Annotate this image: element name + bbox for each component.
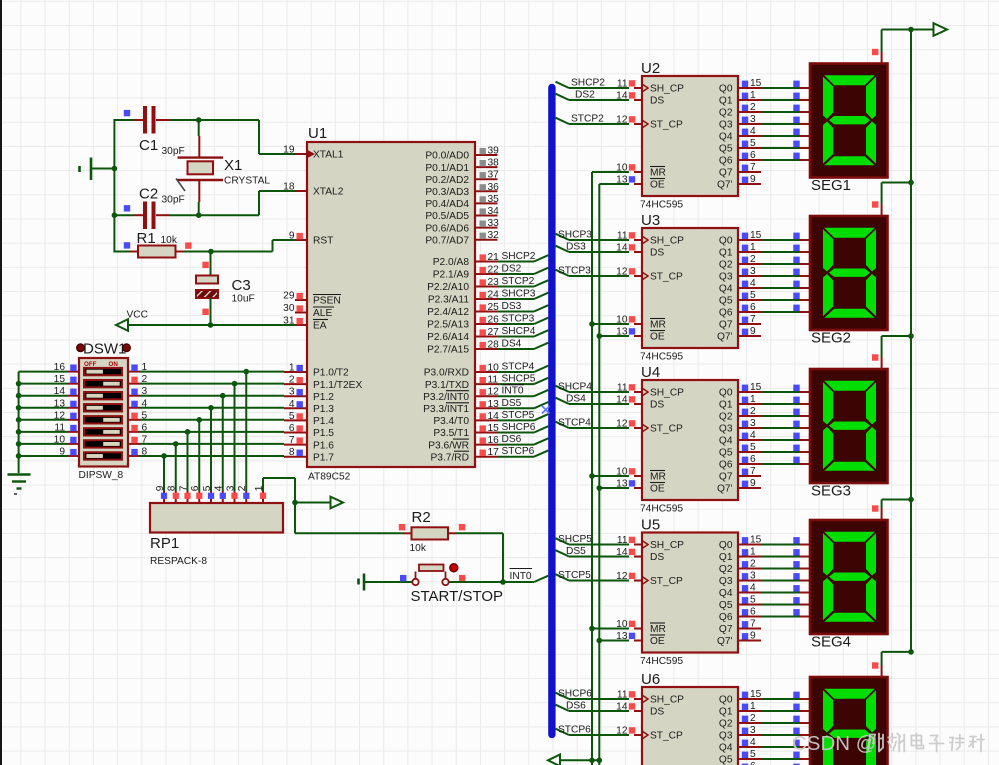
svg-text:27: 27	[488, 327, 500, 338]
svg-text:DS: DS	[650, 707, 664, 718]
svg-text:36: 36	[488, 182, 500, 193]
svg-text:DS6: DS6	[502, 434, 522, 445]
svg-text:STCP3: STCP3	[558, 266, 591, 277]
svg-text:13: 13	[488, 399, 500, 410]
svg-text:5: 5	[750, 749, 756, 760]
svg-text:2: 2	[750, 406, 756, 417]
svg-text:15: 15	[750, 78, 762, 89]
svg-text:24: 24	[488, 290, 500, 301]
svg-text:VCC: VCC	[127, 310, 149, 321]
svg-text:SHCP5: SHCP5	[558, 534, 592, 545]
svg-text:11: 11	[488, 375, 499, 386]
svg-text:SHCP3: SHCP3	[502, 289, 536, 300]
svg-text:P0.3/AD3: P0.3/AD3	[425, 187, 469, 198]
svg-text:ST_CP: ST_CP	[650, 272, 683, 283]
svg-text:Q6: Q6	[719, 612, 733, 623]
svg-text:23: 23	[488, 277, 500, 288]
svg-text:P3.6/WR: P3.6/WR	[428, 440, 469, 451]
svg-text:C3: C3	[232, 277, 251, 294]
svg-text:30: 30	[283, 303, 295, 314]
svg-text:P1.0/T2: P1.0/T2	[313, 368, 349, 379]
svg-text:3: 3	[750, 266, 756, 277]
svg-text:9: 9	[750, 631, 756, 642]
svg-text:SHCP2: SHCP2	[571, 78, 605, 89]
svg-text:6: 6	[750, 454, 756, 465]
svg-text:SHCP4: SHCP4	[502, 326, 536, 337]
svg-text:Q7': Q7'	[717, 332, 733, 343]
svg-text:5: 5	[750, 290, 756, 301]
svg-text:SEG4: SEG4	[811, 634, 851, 651]
svg-text:21: 21	[488, 252, 500, 263]
svg-text:SHCP3: SHCP3	[558, 230, 592, 241]
svg-text:Q0: Q0	[719, 695, 733, 706]
svg-text:25: 25	[488, 302, 500, 313]
svg-text:1: 1	[750, 242, 756, 253]
svg-text:4: 4	[289, 399, 295, 410]
svg-text:MR: MR	[650, 624, 666, 635]
svg-text:ST_CP: ST_CP	[650, 120, 683, 131]
svg-text:Q0: Q0	[719, 84, 733, 95]
svg-text:P3.3/INT1: P3.3/INT1	[423, 404, 469, 415]
svg-text:2: 2	[750, 102, 756, 113]
svg-text:P0.7/AD7: P0.7/AD7	[425, 235, 469, 246]
svg-text:3: 3	[289, 387, 295, 398]
svg-text:RP1: RP1	[150, 535, 179, 552]
svg-text:Q5: Q5	[719, 144, 733, 155]
svg-text:P3.1/TXD: P3.1/TXD	[425, 380, 469, 391]
svg-text:XTAL1: XTAL1	[313, 150, 344, 161]
svg-text:Q2: Q2	[719, 108, 733, 119]
svg-text:1: 1	[750, 90, 756, 101]
svg-text:15: 15	[750, 689, 762, 700]
svg-text:STCP2: STCP2	[502, 276, 535, 287]
svg-text:74HC595: 74HC595	[640, 504, 683, 515]
svg-text:10k: 10k	[410, 543, 427, 554]
svg-text:P0.0/AD0: P0.0/AD0	[425, 151, 469, 162]
svg-text:7: 7	[750, 314, 756, 325]
svg-text:Q5: Q5	[719, 448, 733, 459]
svg-text:6: 6	[750, 150, 756, 161]
svg-text:DS6: DS6	[566, 701, 586, 712]
svg-text:P0.4/AD4: P0.4/AD4	[425, 199, 469, 210]
svg-text:P2.2/A10: P2.2/A10	[427, 282, 469, 293]
svg-text:P0.1/AD1: P0.1/AD1	[425, 163, 469, 174]
svg-text:SHCP4: SHCP4	[558, 382, 592, 393]
svg-text:RESPACK-8: RESPACK-8	[150, 556, 207, 567]
svg-text:SEG1: SEG1	[811, 177, 851, 194]
svg-text:Q7: Q7	[719, 320, 733, 331]
svg-text:15: 15	[750, 230, 762, 241]
svg-text:Q2: Q2	[719, 564, 733, 575]
svg-text:28: 28	[488, 340, 500, 351]
svg-text:INT0: INT0	[502, 386, 524, 397]
svg-text:Q7: Q7	[719, 624, 733, 635]
svg-text:Q6: Q6	[719, 308, 733, 319]
svg-text:Q0: Q0	[719, 540, 733, 551]
svg-text:U2: U2	[641, 60, 660, 77]
svg-text:12: 12	[488, 387, 500, 398]
svg-text:5: 5	[750, 138, 756, 149]
svg-text:33: 33	[488, 218, 500, 229]
svg-text:OE: OE	[650, 636, 665, 647]
svg-text:9: 9	[750, 326, 756, 337]
svg-text:30pF: 30pF	[162, 146, 185, 157]
svg-text:19: 19	[283, 145, 295, 156]
svg-text:STCP3: STCP3	[502, 314, 535, 325]
svg-text:Q4: Q4	[719, 743, 733, 754]
svg-text:3: 3	[750, 418, 756, 429]
svg-text:P3.4/T0: P3.4/T0	[433, 416, 469, 427]
svg-text:U1: U1	[308, 125, 327, 142]
svg-text:74HC595: 74HC595	[640, 352, 683, 363]
svg-text:Q7': Q7'	[717, 180, 733, 191]
svg-text:17: 17	[488, 447, 500, 458]
svg-text:CSDN @: CSDN @	[792, 732, 877, 755]
svg-text:ST_CP: ST_CP	[650, 576, 683, 587]
svg-text:DS: DS	[650, 248, 664, 259]
svg-text:Q1: Q1	[719, 400, 733, 411]
svg-text:DSW1: DSW1	[83, 341, 126, 358]
svg-text:SH_CP: SH_CP	[650, 540, 684, 551]
svg-text:MR: MR	[650, 320, 666, 331]
svg-text:SH_CP: SH_CP	[650, 695, 684, 706]
svg-text:DS5: DS5	[502, 398, 522, 409]
svg-text:7: 7	[750, 619, 756, 630]
svg-text:P3.5/T1: P3.5/T1	[433, 428, 469, 439]
svg-text:STCP6: STCP6	[558, 725, 591, 736]
svg-text:P2.4/A12: P2.4/A12	[427, 307, 469, 318]
svg-text:6: 6	[289, 423, 295, 434]
svg-text:U5: U5	[641, 517, 660, 534]
svg-text:X1: X1	[224, 157, 242, 174]
svg-text:P1.6: P1.6	[313, 440, 334, 451]
svg-text:INT0: INT0	[510, 571, 532, 582]
svg-text:SHCP6: SHCP6	[558, 689, 592, 700]
svg-text:16: 16	[488, 435, 500, 446]
svg-text:Q3: Q3	[719, 120, 733, 131]
svg-text:SH_CP: SH_CP	[650, 388, 684, 399]
svg-text:6: 6	[750, 607, 756, 618]
svg-text:STCP2: STCP2	[571, 114, 604, 125]
svg-text:P2.3/A11: P2.3/A11	[428, 295, 469, 306]
svg-text:STCP5: STCP5	[502, 410, 535, 421]
svg-text:5: 5	[289, 411, 295, 422]
svg-text:Q7: Q7	[719, 472, 733, 483]
svg-text:SH_CP: SH_CP	[650, 84, 684, 95]
svg-text:10uF: 10uF	[232, 294, 255, 305]
svg-text:P0.5/AD5: P0.5/AD5	[425, 211, 469, 222]
svg-text:P1.4: P1.4	[313, 416, 334, 427]
svg-text:OE: OE	[650, 484, 665, 495]
svg-text:OE: OE	[650, 332, 665, 343]
svg-text:Q3: Q3	[719, 424, 733, 435]
svg-text:9: 9	[750, 478, 756, 489]
svg-text:34: 34	[488, 206, 500, 217]
svg-text:39: 39	[488, 146, 500, 157]
svg-text:Q4: Q4	[719, 132, 733, 143]
svg-text:10: 10	[488, 363, 500, 374]
svg-text:26: 26	[488, 315, 500, 326]
svg-text:OE: OE	[650, 180, 665, 191]
svg-text:15: 15	[488, 423, 500, 434]
svg-text:DS: DS	[650, 400, 664, 411]
svg-text:P1.7: P1.7	[313, 452, 334, 463]
svg-text:Q1: Q1	[719, 552, 733, 563]
svg-text:15: 15	[750, 382, 762, 393]
svg-text:Q1: Q1	[719, 248, 733, 259]
svg-text:Q2: Q2	[719, 260, 733, 271]
svg-text:38: 38	[488, 158, 500, 169]
svg-text:1: 1	[289, 363, 295, 374]
svg-text:DS5: DS5	[566, 546, 586, 557]
svg-text:4: 4	[750, 278, 756, 289]
svg-text:MR: MR	[650, 168, 666, 179]
svg-text:CRYSTAL: CRYSTAL	[224, 176, 270, 187]
svg-text:Q2: Q2	[719, 719, 733, 730]
svg-text:6: 6	[750, 302, 756, 313]
svg-text:Q3: Q3	[719, 731, 733, 742]
svg-text:P1.2: P1.2	[313, 392, 334, 403]
svg-text:P0.6/AD6: P0.6/AD6	[425, 223, 469, 234]
svg-text:SEG3: SEG3	[811, 483, 851, 500]
svg-text:DS2: DS2	[502, 264, 522, 275]
svg-text:7: 7	[289, 435, 295, 446]
svg-text:10k: 10k	[161, 235, 178, 246]
svg-text:C2: C2	[139, 186, 158, 203]
svg-text:MR: MR	[650, 472, 666, 483]
svg-text:5: 5	[750, 442, 756, 453]
svg-text:R2: R2	[412, 509, 431, 526]
svg-text:RST: RST	[313, 236, 333, 247]
svg-text:2: 2	[750, 559, 756, 570]
svg-text:SHCP5: SHCP5	[502, 374, 536, 385]
svg-text:1: 1	[750, 394, 756, 405]
svg-text:DIPSW_8: DIPSW_8	[79, 470, 124, 481]
svg-text:DS: DS	[650, 96, 664, 107]
svg-text:START/STOP: START/STOP	[411, 588, 504, 605]
svg-text:8: 8	[289, 447, 295, 458]
svg-text:9: 9	[750, 174, 756, 185]
svg-text:Q4: Q4	[719, 436, 733, 447]
svg-text:STCP4: STCP4	[502, 362, 535, 373]
svg-text:18: 18	[283, 182, 295, 193]
svg-text:74HC595: 74HC595	[640, 200, 683, 211]
svg-text:P0.2/AD2: P0.2/AD2	[425, 175, 469, 186]
svg-text:STCP5: STCP5	[558, 570, 591, 581]
svg-text:4: 4	[750, 126, 756, 137]
svg-text:U3: U3	[641, 212, 660, 229]
svg-text:STCP4: STCP4	[558, 418, 591, 429]
svg-text:SHCP2: SHCP2	[502, 251, 536, 262]
svg-text:DS3: DS3	[502, 301, 522, 312]
svg-text:Q0: Q0	[719, 236, 733, 247]
svg-text:3: 3	[750, 725, 756, 736]
svg-text:Q1: Q1	[719, 707, 733, 718]
svg-text:37: 37	[488, 170, 500, 181]
svg-text:P3.2/INT0: P3.2/INT0	[423, 392, 469, 403]
svg-text:DS4: DS4	[502, 339, 522, 350]
svg-text:P1.5: P1.5	[313, 428, 334, 439]
svg-text:P2.1/A9: P2.1/A9	[433, 270, 470, 281]
svg-text:Q5: Q5	[719, 755, 733, 765]
svg-text:Q3: Q3	[719, 576, 733, 587]
svg-text:PSEN: PSEN	[313, 296, 341, 307]
svg-text:22: 22	[488, 265, 500, 276]
svg-text:2: 2	[289, 375, 295, 386]
svg-text:DS3: DS3	[566, 242, 586, 253]
svg-text:P2.0/A8: P2.0/A8	[433, 257, 470, 268]
svg-text:R1: R1	[137, 230, 156, 247]
svg-text:ALE: ALE	[313, 308, 332, 319]
svg-text:Q7': Q7'	[717, 484, 733, 495]
svg-text:XTAL2: XTAL2	[313, 187, 344, 198]
svg-text:C1: C1	[139, 137, 158, 154]
svg-text:Q5: Q5	[719, 296, 733, 307]
svg-text:Q6: Q6	[719, 460, 733, 471]
svg-text:ST_CP: ST_CP	[650, 731, 683, 742]
svg-text:9: 9	[289, 231, 295, 242]
svg-text:3: 3	[750, 114, 756, 125]
svg-text:Q0: Q0	[719, 388, 733, 399]
svg-text:6: 6	[750, 761, 756, 765]
svg-text:3: 3	[750, 571, 756, 582]
svg-text:4: 4	[750, 430, 756, 441]
svg-text:P1.1/T2EX: P1.1/T2EX	[313, 380, 362, 391]
svg-text:P3.7/RD: P3.7/RD	[430, 452, 469, 463]
svg-text:U6: U6	[641, 671, 660, 688]
svg-text:29: 29	[283, 291, 295, 302]
svg-text:32: 32	[488, 230, 500, 241]
svg-text:15: 15	[750, 535, 762, 546]
svg-text:31: 31	[283, 316, 295, 327]
svg-text:7: 7	[750, 466, 756, 477]
svg-text:U4: U4	[641, 364, 660, 381]
svg-text:AT89C52: AT89C52	[308, 472, 351, 483]
svg-text:2: 2	[750, 254, 756, 265]
svg-text:Q4: Q4	[719, 588, 733, 599]
svg-text:STCP6: STCP6	[502, 446, 535, 457]
svg-text:1: 1	[750, 547, 756, 558]
svg-text:35: 35	[488, 194, 500, 205]
svg-text:P2.7/A15: P2.7/A15	[427, 345, 469, 356]
svg-text:Q3: Q3	[719, 272, 733, 283]
svg-text:7: 7	[750, 162, 756, 173]
svg-text:DS2: DS2	[575, 90, 595, 101]
svg-text:5: 5	[750, 595, 756, 606]
svg-text:1: 1	[750, 701, 756, 712]
svg-text:SH_CP: SH_CP	[650, 236, 684, 247]
svg-text:Q7: Q7	[719, 168, 733, 179]
svg-text:Q4: Q4	[719, 284, 733, 295]
svg-text:P2.5/A13: P2.5/A13	[427, 320, 469, 331]
svg-text:Q6: Q6	[719, 156, 733, 167]
svg-text:4: 4	[750, 583, 756, 594]
svg-text:P1.3: P1.3	[313, 404, 334, 415]
svg-text:14: 14	[488, 411, 500, 422]
svg-text:ST_CP: ST_CP	[650, 424, 683, 435]
svg-text:P3.0/RXD: P3.0/RXD	[424, 368, 469, 379]
svg-text:4: 4	[750, 737, 756, 748]
svg-text:P2.6/A14: P2.6/A14	[427, 332, 469, 343]
svg-text:EA: EA	[313, 321, 327, 332]
svg-text:DS4: DS4	[566, 394, 586, 405]
svg-text:30pF: 30pF	[162, 195, 185, 206]
svg-text:74HC595: 74HC595	[640, 656, 683, 667]
svg-text:SHCP6: SHCP6	[502, 422, 536, 433]
svg-text:SEG2: SEG2	[811, 330, 851, 347]
svg-text:2: 2	[750, 713, 756, 724]
svg-text:DS: DS	[650, 552, 664, 563]
svg-text:Q5: Q5	[719, 600, 733, 611]
svg-text:Q7': Q7'	[717, 636, 733, 647]
svg-text:Q1: Q1	[719, 96, 733, 107]
svg-text:Q2: Q2	[719, 412, 733, 423]
